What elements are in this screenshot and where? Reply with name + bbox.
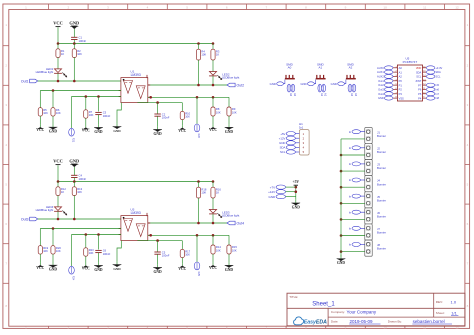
svg-text:Your Company: Your Company xyxy=(347,309,377,314)
svg-text:100nF: 100nF xyxy=(162,116,170,120)
svg-text:10K: 10K xyxy=(185,115,190,119)
svg-text:Out1: Out1 xyxy=(378,79,384,83)
svg-text:A1: A1 xyxy=(399,70,403,74)
svg-text:1.0: 1.0 xyxy=(451,300,457,305)
svg-text:GND: GND xyxy=(49,268,58,272)
svg-text:In6: In6 xyxy=(435,88,439,92)
svg-text:LM393: LM393 xyxy=(131,211,141,215)
svg-text:10K: 10K xyxy=(77,52,82,56)
svg-text:REV:: REV: xyxy=(436,300,443,304)
svg-text:Bornier: Bornier xyxy=(377,231,386,235)
svg-text:2019-05-09: 2019-05-09 xyxy=(350,319,374,324)
svg-text:Out1: Out1 xyxy=(21,79,29,83)
svg-text:In7: In7 xyxy=(435,92,439,96)
svg-text:VCC: VCC xyxy=(53,159,63,164)
svg-text:VCC: VCC xyxy=(82,267,90,271)
svg-text:+5V: +5V xyxy=(292,180,299,184)
svg-text:EasyEDA: EasyEDA xyxy=(304,320,327,326)
svg-text:10K: 10K xyxy=(201,191,206,195)
svg-text:A2: A2 xyxy=(349,66,353,70)
svg-text:100nF: 100nF xyxy=(79,39,87,43)
svg-text:11: 11 xyxy=(423,5,426,9)
svg-text:12: 12 xyxy=(455,5,459,9)
svg-text:+7V: +7V xyxy=(270,185,275,189)
svg-text:AUX1: AUX1 xyxy=(377,70,384,74)
svg-text:Bornier: Bornier xyxy=(377,247,386,251)
svg-text:Bornier: Bornier xyxy=(377,150,386,154)
svg-text:LEDBlue light: LEDBlue light xyxy=(36,70,54,74)
svg-text:In8: In8 xyxy=(435,96,439,100)
svg-text:A0: A0 xyxy=(288,66,292,70)
svg-text:1K: 1K xyxy=(61,190,64,194)
svg-text:1K: 1K xyxy=(216,53,219,57)
svg-text:10K: 10K xyxy=(232,248,237,252)
svg-text:LEDBlue light: LEDBlue light xyxy=(222,76,240,80)
svg-text:Bornier: Bornier xyxy=(377,198,386,202)
svg-text:Sheet:: Sheet: xyxy=(436,311,445,315)
svg-text:VCC: VCC xyxy=(82,129,90,133)
svg-text:Sheet_1: Sheet_1 xyxy=(312,302,335,308)
svg-text:GND: GND xyxy=(279,141,285,145)
svg-text:+3.3V: +3.3V xyxy=(435,66,442,70)
svg-text:GND: GND xyxy=(113,129,121,133)
svg-text:SDA: SDA xyxy=(280,146,286,150)
svg-text:1K: 1K xyxy=(216,191,219,195)
svg-text:SCL: SCL xyxy=(280,150,286,154)
svg-text:R21: R21 xyxy=(72,138,75,143)
svg-text:+5V: +5V xyxy=(280,132,285,136)
svg-text:P7: P7 xyxy=(418,83,422,87)
svg-text:SCL: SCL xyxy=(435,75,441,79)
svg-text:LM393: LM393 xyxy=(131,73,141,77)
svg-text:+12V: +12V xyxy=(268,190,275,194)
svg-text:GND: GND xyxy=(300,82,306,86)
svg-text:#INT: #INT xyxy=(416,79,422,83)
svg-text:Bornier: Bornier xyxy=(377,166,386,170)
svg-text:100nF: 100nF xyxy=(162,254,170,258)
svg-text:Bornier: Bornier xyxy=(377,182,386,186)
svg-text:Out3: Out3 xyxy=(378,88,384,92)
svg-text:P5: P5 xyxy=(418,92,422,96)
svg-text:SDA: SDA xyxy=(416,70,422,74)
svg-text:10K: 10K xyxy=(232,110,237,114)
svg-text:R24: R24 xyxy=(72,276,75,281)
svg-text:GND: GND xyxy=(270,82,276,86)
svg-text:100nF: 100nF xyxy=(79,177,87,181)
svg-text:PCF8574T: PCF8574T xyxy=(403,60,418,64)
svg-text:GND: GND xyxy=(94,268,103,272)
svg-text:GND: GND xyxy=(113,267,121,271)
svg-text:GND: GND xyxy=(292,205,300,209)
svg-text:In5: In5 xyxy=(435,83,439,87)
svg-text:5x1: 5x1 xyxy=(299,126,304,130)
svg-text:10K: 10K xyxy=(56,111,61,115)
svg-text:GND: GND xyxy=(69,159,79,164)
svg-text:Bornier: Bornier xyxy=(377,134,386,138)
svg-text:VSS: VSS xyxy=(399,96,404,100)
svg-text:10K: 10K xyxy=(43,111,48,115)
svg-text:Out4: Out4 xyxy=(378,92,384,96)
svg-text:P0: P0 xyxy=(399,79,403,83)
svg-text:P3: P3 xyxy=(399,92,403,96)
svg-text:1K: 1K xyxy=(61,52,64,56)
svg-text:SDA: SDA xyxy=(435,70,441,74)
svg-text:10K: 10K xyxy=(216,248,221,252)
svg-text:AUX0: AUX0 xyxy=(377,66,384,70)
svg-text:Out4: Out4 xyxy=(237,221,245,225)
svg-text:Out2: Out2 xyxy=(378,83,384,87)
svg-text:P2: P2 xyxy=(399,88,403,92)
svg-text:10K: 10K xyxy=(89,113,94,117)
svg-text:LEDBlue light: LEDBlue light xyxy=(222,214,240,218)
svg-text:10K: 10K xyxy=(77,190,82,194)
svg-text:LEDBlue light: LEDBlue light xyxy=(36,208,54,212)
svg-text:Company:: Company: xyxy=(331,310,345,314)
svg-text:Date:: Date: xyxy=(331,320,339,324)
svg-text:100nF: 100nF xyxy=(103,252,111,256)
svg-text:GND: GND xyxy=(378,96,384,100)
svg-text:+12V: +12V xyxy=(279,136,286,140)
svg-text:GND: GND xyxy=(49,130,58,134)
svg-text:SCL: SCL xyxy=(416,75,422,79)
svg-text:AUX2: AUX2 xyxy=(377,75,384,79)
svg-text:Drawn By:: Drawn By: xyxy=(388,320,402,324)
svg-text:A1: A1 xyxy=(318,66,322,70)
svg-text:TITLE:: TITLE: xyxy=(289,295,298,299)
svg-text:VCC: VCC xyxy=(178,129,186,133)
svg-text:GND: GND xyxy=(153,270,162,274)
svg-text:GND: GND xyxy=(331,82,337,86)
svg-text:GND: GND xyxy=(69,21,79,26)
svg-text:sebastien.borrel: sebastien.borrel xyxy=(413,319,445,324)
svg-text:VCC: VCC xyxy=(209,128,217,132)
svg-text:10K: 10K xyxy=(56,249,61,253)
svg-text:GND: GND xyxy=(269,195,277,199)
svg-text:VCC: VCC xyxy=(53,21,63,26)
svg-text:VCC: VCC xyxy=(36,128,44,132)
svg-text:P6: P6 xyxy=(418,88,422,92)
svg-text:10K: 10K xyxy=(216,110,221,114)
svg-text:A0: A0 xyxy=(399,66,403,70)
svg-text:10: 10 xyxy=(383,5,387,9)
svg-text:Bornier: Bornier xyxy=(377,215,386,219)
svg-text:1/1: 1/1 xyxy=(451,310,457,315)
svg-text:VCC: VCC xyxy=(178,267,186,271)
svg-text:GND: GND xyxy=(337,261,345,265)
svg-text:100nF: 100nF xyxy=(103,114,111,118)
svg-text:P4: P4 xyxy=(418,96,422,100)
svg-text:R25: R25 xyxy=(197,272,200,277)
svg-text:VCC: VCC xyxy=(209,266,217,270)
svg-text:GND: GND xyxy=(225,268,234,272)
svg-text:VCC: VCC xyxy=(36,266,44,270)
svg-text:10K: 10K xyxy=(43,249,48,253)
svg-text:10K: 10K xyxy=(185,253,190,257)
svg-text:10K: 10K xyxy=(89,251,94,255)
svg-text:R22: R22 xyxy=(197,134,200,139)
svg-text:Out2: Out2 xyxy=(237,83,245,87)
svg-text:VDD: VDD xyxy=(416,66,422,70)
svg-text:Out3: Out3 xyxy=(21,217,29,221)
svg-text:A2: A2 xyxy=(399,75,403,79)
svg-text:GND: GND xyxy=(225,130,234,134)
svg-text:GND: GND xyxy=(153,132,162,136)
svg-text:P1: P1 xyxy=(399,83,403,87)
svg-text:GND: GND xyxy=(94,130,103,134)
svg-text:10K: 10K xyxy=(201,53,206,57)
